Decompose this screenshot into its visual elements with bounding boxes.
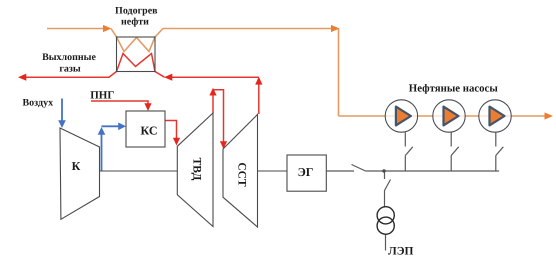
svg-text:газы: газы — [59, 64, 81, 75]
svg-text:ТВД: ТВД — [190, 158, 202, 181]
svg-text:ЛЭП: ЛЭП — [388, 246, 413, 258]
svg-text:КС: КС — [140, 123, 157, 137]
svg-text:К: К — [72, 159, 81, 173]
svg-text:Воздух: Воздух — [23, 98, 54, 109]
svg-text:нефти: нефти — [121, 17, 149, 28]
svg-text:ССТ: ССТ — [235, 162, 247, 187]
svg-text:Выхлопные: Выхлопные — [42, 52, 96, 63]
svg-text:ПНГ: ПНГ — [90, 90, 114, 102]
svg-text:Нефтяные насосы: Нефтяные насосы — [409, 82, 499, 94]
svg-text:Подогрев: Подогрев — [115, 6, 158, 17]
svg-text:ЭГ: ЭГ — [298, 165, 314, 179]
